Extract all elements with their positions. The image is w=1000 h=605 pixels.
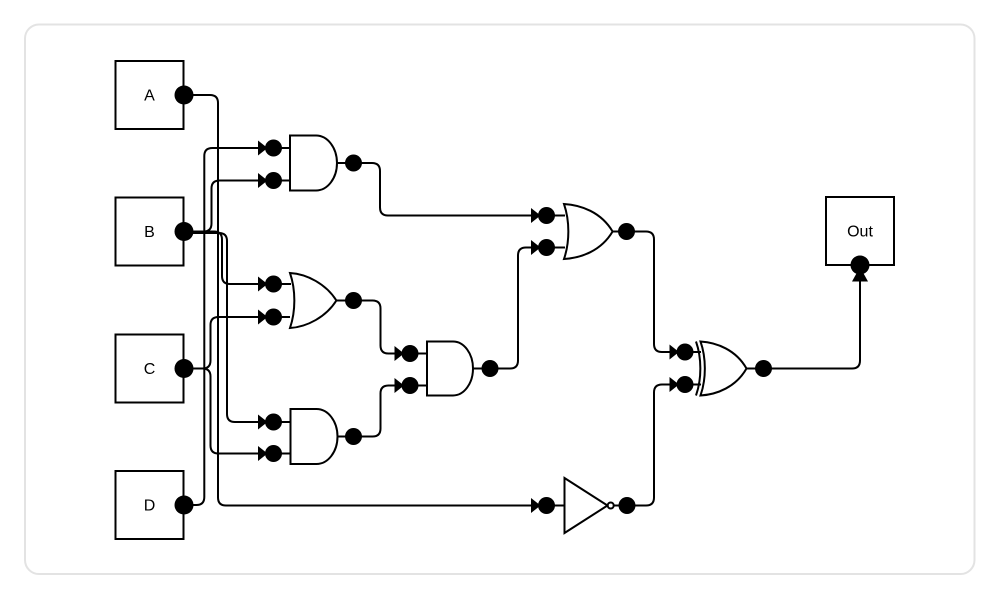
svg-text:B: B [144,224,155,241]
AND gate G3 [291,409,338,464]
wire B to AND1 input2 [184,181,290,232]
G7 input2 arrow+port [670,377,680,392]
svg-text:D: D [144,498,156,515]
G7 output port [755,360,772,377]
input box A [116,61,184,129]
wire AND1 out to OR2 input1 [337,163,565,216]
svg-text:A: A [144,88,155,105]
XOR gate G7 body [701,342,747,396]
output box Out [826,197,894,265]
G1 input1 arrow+port [258,141,268,156]
input box C [116,335,184,403]
arrow into Out port [852,267,868,282]
G5 input1 arrow+port [531,208,541,223]
G5 output port [618,223,635,240]
input box D [116,471,184,539]
G2 input2 arrow+port [258,310,268,325]
wire B to OR1 input1 [184,232,291,285]
wire AND3 out to OR2 input2 [474,248,566,369]
G4 input2 arrow+port [395,378,405,393]
wire C to AND2 input2 [184,369,291,454]
wire XOR out to Out box [747,272,861,369]
port circle A [175,86,194,105]
G2 input1 arrow+port [258,277,268,292]
G4 input1 arrow+port [395,346,405,361]
wire NOT out to XOR input2 [614,385,701,506]
G3 input1 arrow+port [258,415,268,430]
G1 input2 arrow+port [258,173,268,188]
G5 input2 arrow+port [531,240,541,255]
port circle D [175,496,194,515]
port circle Out [851,256,870,275]
wire B to AND2 input1 [184,233,291,422]
wire D to AND1 input1 [184,148,290,505]
G7 input1 arrow+port [670,345,680,360]
wire A to NOT input [184,95,564,506]
G2 output port [345,292,362,309]
NOT gate G6 triangle [565,478,608,533]
wire AND2 out to AND3 input2 [337,386,428,437]
AND gate G1 [290,136,337,191]
wire OR1 out to AND3 input1 [336,301,428,354]
OR gate G5 [564,204,613,259]
input box B [116,198,184,266]
port circle C [175,359,194,378]
svg-text:C: C [144,361,156,378]
G3 output port [345,428,362,445]
AND gate G4 [427,342,473,396]
svg-text:Out: Out [847,224,873,241]
OR gate G2 [290,273,336,328]
G6 input arrow+port [531,498,541,513]
G1 output port [345,155,362,172]
NOT gate G6 bubble [608,503,614,509]
G6 output port [619,497,636,514]
port circle B [175,222,194,241]
G3 input2 arrow+port [258,446,268,461]
XOR gate G7 back arc [696,342,700,396]
wire C to OR1 input2 [184,317,290,369]
wire OR2 out to XOR input1 [613,232,701,353]
G4 output port [482,360,499,377]
